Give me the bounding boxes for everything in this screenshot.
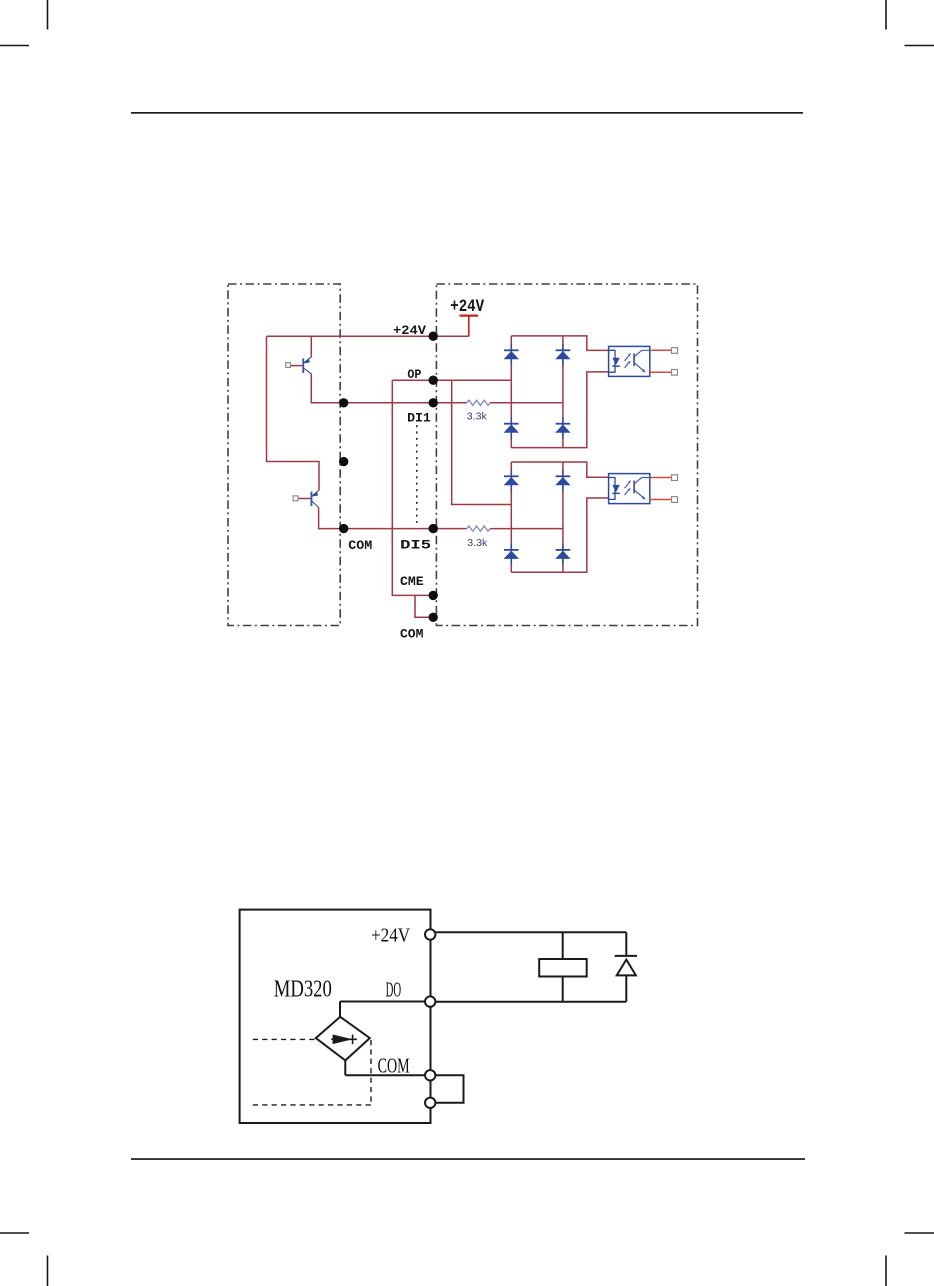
svg-text:CME: CME xyxy=(400,574,424,589)
svg-text:COM: COM xyxy=(400,627,424,642)
svg-text:DO: DO xyxy=(386,977,402,1001)
svg-text:COM: COM xyxy=(378,1053,410,1077)
svg-text:OP: OP xyxy=(407,367,421,382)
svg-text:+24V: +24V xyxy=(450,297,484,317)
svg-text:3.3k: 3.3k xyxy=(467,410,488,422)
svg-text:DI5: DI5 xyxy=(400,538,431,553)
svg-text:+24V: +24V xyxy=(371,925,410,947)
svg-text:COM: COM xyxy=(348,538,372,553)
svg-text:3.3k: 3.3k xyxy=(467,537,488,549)
svg-text:+24V: +24V xyxy=(393,323,426,338)
svg-text:MD320: MD320 xyxy=(274,976,332,1002)
svg-text:DI1: DI1 xyxy=(407,410,431,425)
